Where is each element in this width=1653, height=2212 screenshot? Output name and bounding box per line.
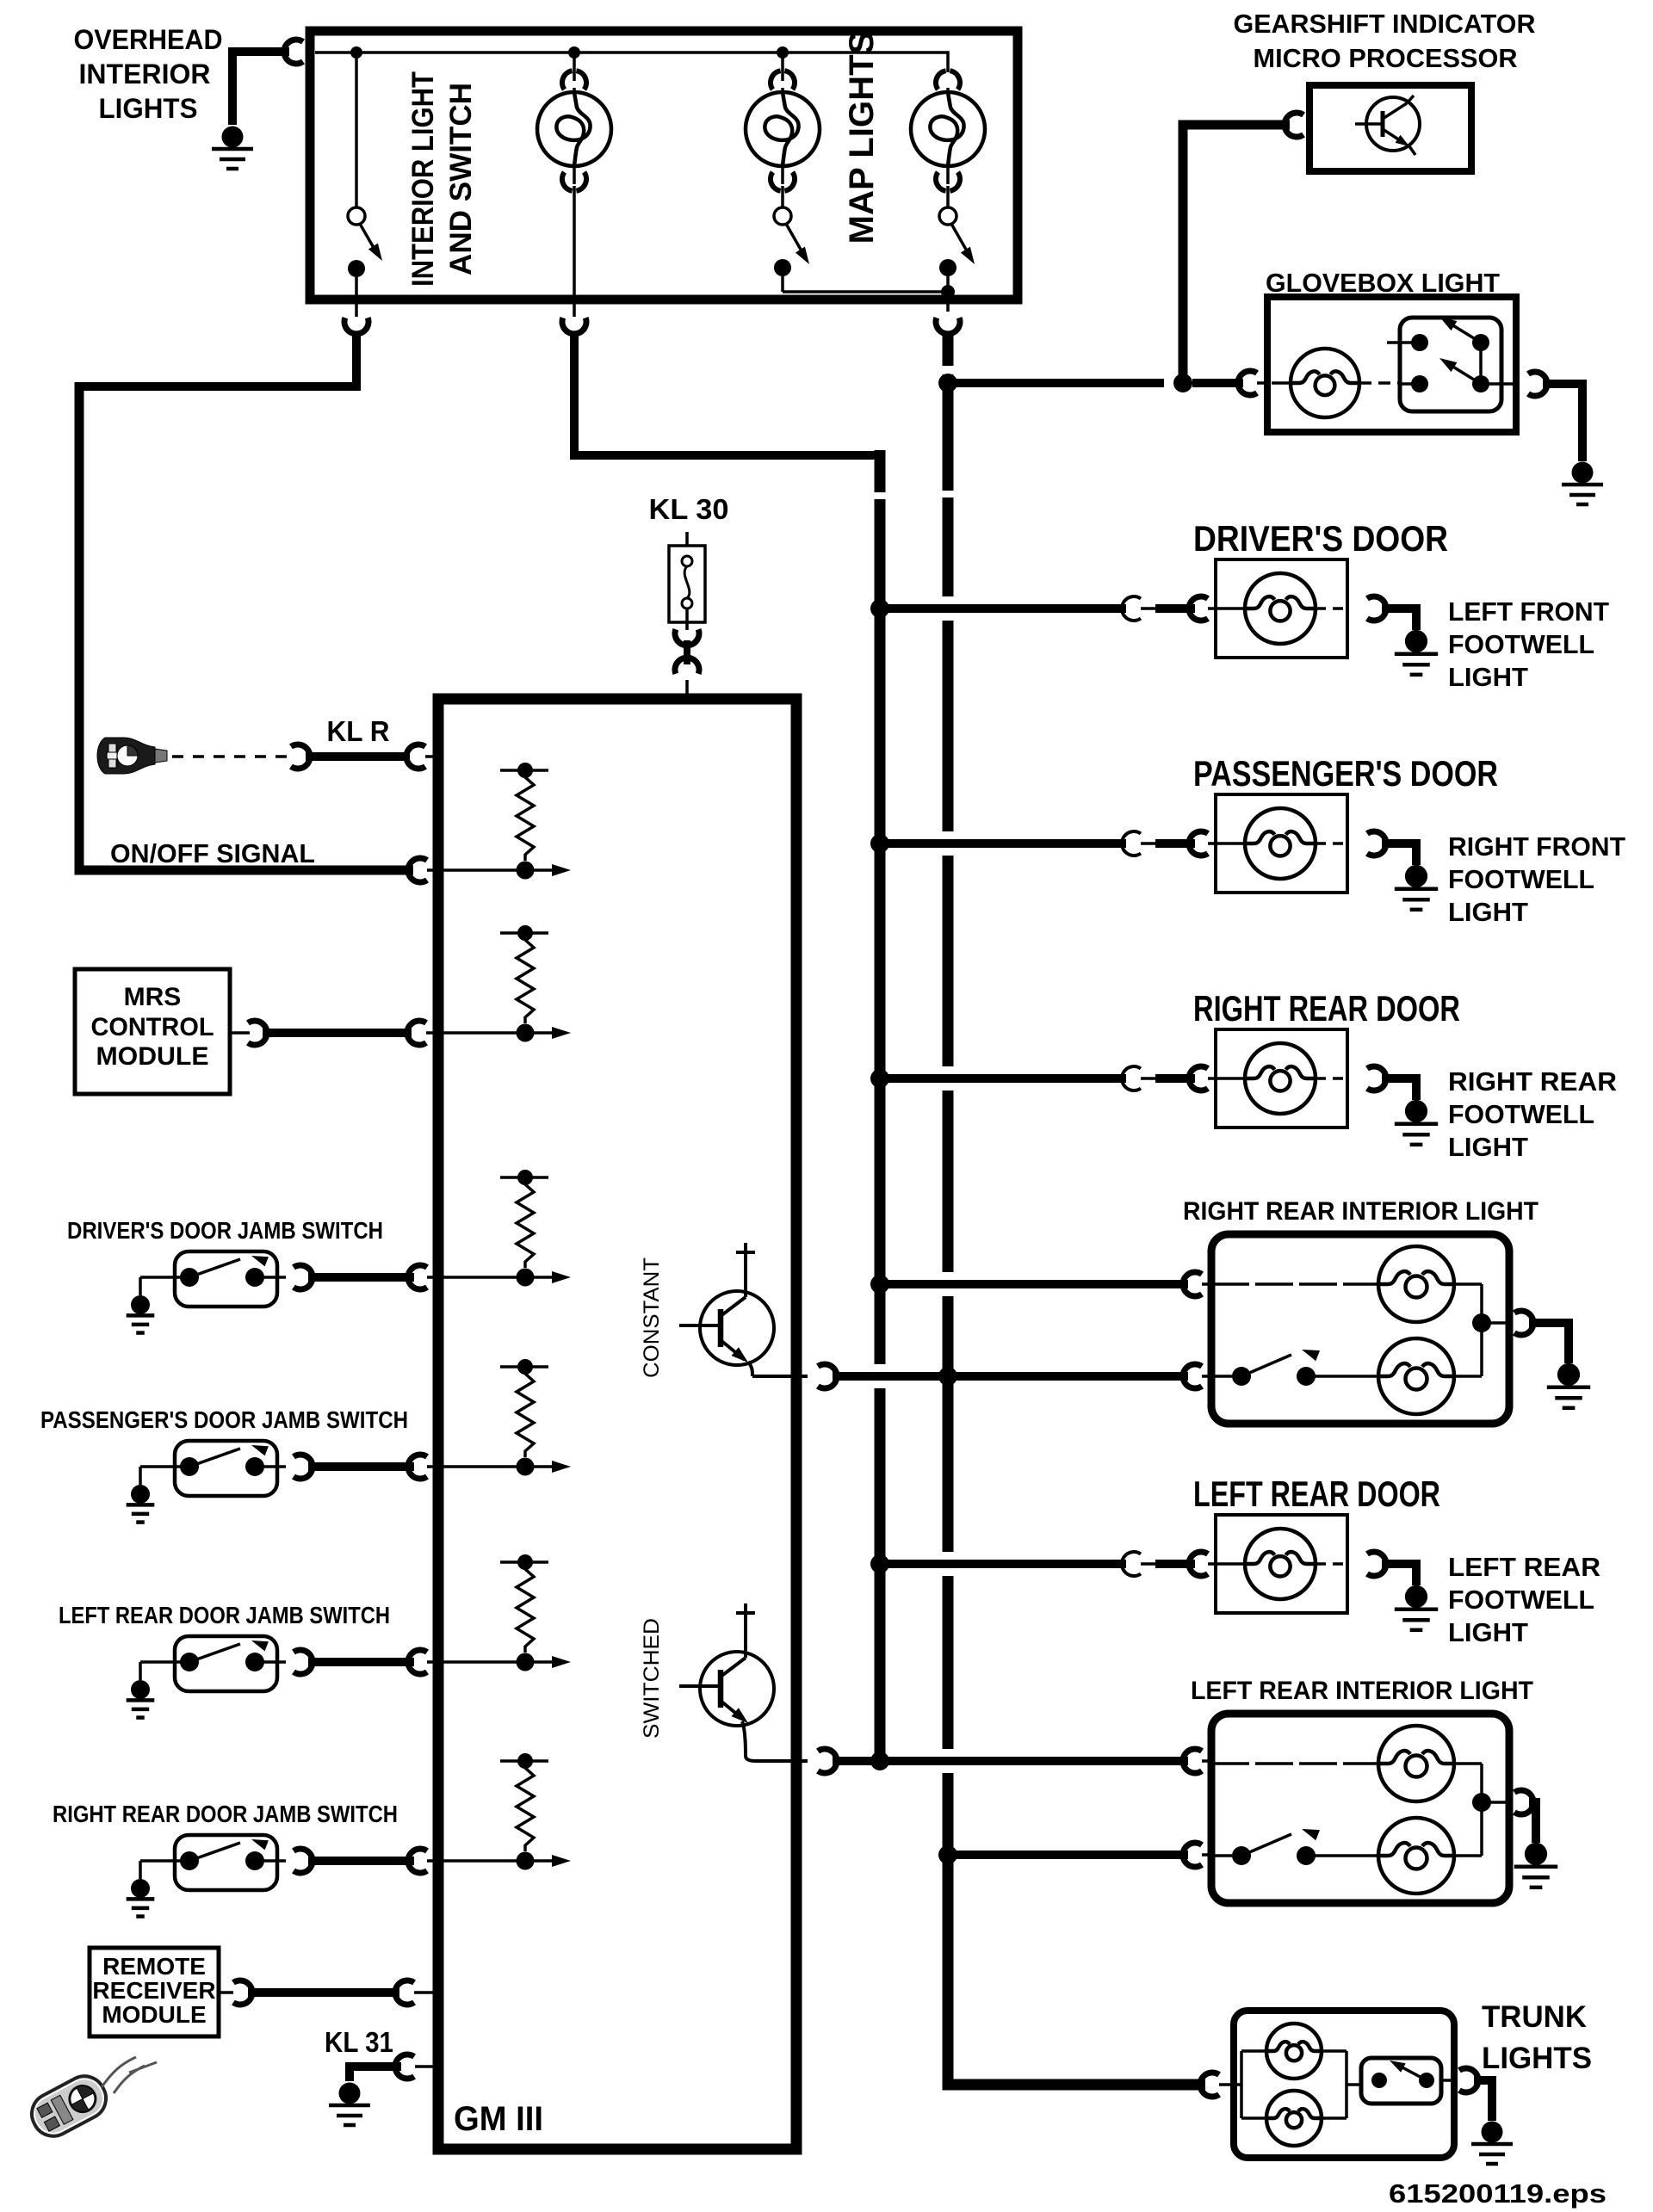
svg-text:GEARSHIFT INDICATOR: GEARSHIFT INDICATOR [1234,9,1536,39]
svg-text:LEFT REAR DOOR JAMB SWITCH: LEFT REAR DOOR JAMB SWITCH [59,1602,390,1628]
wire from left bus [870,599,889,618]
ground [1482,2122,1503,2143]
wire from left bus [870,834,889,853]
wire: remote receiver to GM III [219,1991,233,1994]
GM III input line y=1931 [443,1660,554,1664]
interior bulb output connector [562,318,586,334]
wire from left bus [870,1069,889,1088]
svg-text:MAP LIGHTS: MAP LIGHTS [843,32,881,244]
supply lead [744,1622,747,1658]
svg-text:LIGHTS: LIGHTS [1482,2042,1592,2075]
svg-text:KL R: KL R [327,715,390,747]
ignition key illustration [97,738,167,774]
wire: left bus to right rear interior light bulbs [870,1275,889,1294]
ground [1525,1843,1547,1865]
jamb switch contacts and blade [180,1457,199,1476]
fuse KL 30 [685,532,689,546]
bulb 2 [1378,1818,1454,1894]
interior light and switch box [310,31,1018,300]
right vertical bus [943,336,954,366]
svg-text:OVERHEAD: OVERHEAD [74,24,223,55]
bulb 1 [1211,1762,1378,1765]
svg-text:FOOTWELL: FOOTWELL [1448,1099,1594,1129]
svg-text:CONSTANT: CONSTANT [640,1257,664,1378]
svg-text:DRIVER'S DOOR: DRIVER'S DOOR [1193,518,1448,559]
svg-text:LEFT REAR DOOR: LEFT REAR DOOR [1193,1474,1440,1514]
resistor (input pull-up) [500,1560,548,1564]
connector at interior light box [284,40,303,64]
output to ground [1367,596,1386,621]
svg-text:INTERIOR: INTERIOR [79,59,211,90]
GM III input line y=2162 [443,1859,554,1863]
wire: right bus to left rear interior light switch row [938,1845,957,1864]
door lamp box [1216,559,1347,658]
svg-text:GLOVEBOX LIGHT: GLOVEBOX LIGHT [1266,268,1500,298]
transistor constant driver [700,1291,774,1365]
constant output connector [818,1364,837,1388]
trunk output to ground [1459,2068,1478,2092]
svg-text:LIGHT: LIGHT [1448,1132,1528,1162]
supply lead [744,1262,747,1297]
wire: switch output to GM III on/off input [79,331,356,386]
map light switch 2 [946,186,950,207]
svg-text:LEFT REAR INTERIOR LIGHT: LEFT REAR INTERIOR LIGHT [1191,1677,1533,1705]
svg-text:PASSENGER'S DOOR JAMB SWITCH: PASSENGER'S DOOR JAMB SWITCH [40,1406,408,1433]
svg-text:AND SWITCH: AND SWITCH [444,83,478,275]
wire to GM III [294,1849,313,1873]
svg-text:KL 31: KL 31 [325,2026,393,2058]
fuse to GM III connector pair [675,629,699,646]
svg-text:FOOTWELL: FOOTWELL [1448,1585,1594,1615]
output to ground [1367,1552,1386,1576]
svg-text:RIGHT REAR DOOR: RIGHT REAR DOOR [1193,988,1460,1029]
svg-text:FOOTWELL: FOOTWELL [1448,629,1594,659]
wire: switched output to left bus end and left rear interior light [833,1757,1188,1765]
wire: right bus down to trunk [948,2079,1205,2085]
left vertical bus [875,450,886,492]
svg-text:CONTROL: CONTROL [91,1013,214,1041]
svg-text:ON/OFF SIGNAL: ON/OFF SIGNAL [110,838,315,868]
wire: constant output to right bus and right rear interior light [833,1372,1188,1381]
svg-text:LEFT REAR: LEFT REAR [1448,1552,1600,1582]
svg-text:GM III: GM III [454,2100,543,2138]
svg-text:RIGHT FRONT: RIGHT FRONT [1448,831,1625,862]
remote receiver module [90,1948,219,2036]
svg-text:TRUNK: TRUNK [1482,2000,1587,2034]
svg-text:RIGHT REAR: RIGHT REAR [1448,1066,1617,1097]
svg-text:MRS: MRS [124,983,182,1011]
ground [1557,1363,1580,1386]
wire: bulb feed to left bus [574,331,875,455]
GM III input line y=1484 [443,1276,554,1279]
ground [1405,865,1427,887]
map light bulb 1 [781,53,784,81]
GM III input line y=1704 [443,1465,554,1468]
ground [1405,1585,1427,1608]
svg-text:PASSENGER'S DOOR: PASSENGER'S DOOR [1193,753,1498,794]
wire: right bus to glovebox [938,374,957,392]
bulb 2 [1378,1338,1454,1414]
wire to GM III [294,1265,313,1289]
switched output connector [818,1749,837,1773]
interior light switch [355,53,358,207]
svg-text:KL 30: KL 30 [649,493,729,525]
ground [131,1485,150,1504]
jamb switch contacts and blade [180,1851,199,1870]
svg-text:FOOTWELL: FOOTWELL [1448,864,1594,894]
wire: KL 31 ground input [395,2054,414,2079]
glovebox output to ground [1528,372,1547,396]
transistor symbol [1366,97,1420,151]
map light switch 1 [781,186,784,207]
output to ground [1367,831,1386,856]
ground [339,2083,361,2104]
jamb switch contacts and blade [180,1268,199,1287]
switch output connector below box [344,318,368,334]
transistor switched driver [700,1652,774,1726]
ground [131,1879,150,1898]
wire: KL R input [291,745,310,769]
output to ground [1367,1066,1386,1091]
map lights output connector [936,318,960,334]
internal supply bus [315,53,948,72]
gearshift indicator box [1309,85,1471,171]
svg-text:DRIVER'S DOOR JAMB SWITCH: DRIVER'S DOOR JAMB SWITCH [67,1217,383,1244]
ground [1572,462,1594,484]
wire: bus to gearshift indicator [1285,113,1303,137]
GM III input line y=1011 [443,868,554,872]
svg-text:RIGHT REAR DOOR JAMB SWITCH: RIGHT REAR DOOR JAMB SWITCH [53,1801,398,1827]
svg-text:LIGHTS: LIGHTS [99,93,198,124]
switch [1211,1854,1232,1857]
svg-text:MODULE: MODULE [102,2001,206,2028]
svg-text:INTERIOR LIGHT: INTERIOR LIGHT [406,71,440,287]
wire: MRS to GM III [230,1031,250,1035]
door lamp box [1216,1029,1347,1128]
svg-text:RECEIVER: RECEIVER [92,1977,215,2004]
bulb 1 [1211,1282,1378,1286]
ground [1405,630,1427,652]
glovebox light box [1267,297,1516,432]
connector: on/off input [408,858,427,882]
svg-text:LEFT FRONT: LEFT FRONT [1448,596,1609,627]
glovebox bulb [1272,381,1291,385]
svg-text:SWITCHED: SWITCHED [640,1618,664,1739]
resistor (input pull-up) [500,1759,548,1763]
resistor (input pull-up) [500,1176,548,1179]
switch [1211,1375,1232,1378]
interior light bulb [573,53,576,81]
ground [131,1295,150,1314]
remote key fob illustration [25,2069,114,2143]
jamb switch contacts and blade [180,1653,199,1671]
door lamp box [1216,1515,1347,1613]
wire: overhead lights feed [232,52,289,125]
resistor (input pull-up) [500,1365,548,1369]
GM III input line y=1200 [443,1031,554,1035]
GM III control module box [438,699,796,2149]
svg-text:615200119.eps: 615200119.eps [1389,2178,1607,2209]
svg-text:LIGHT: LIGHT [1448,1617,1528,1647]
wire from left bus [870,1554,889,1573]
svg-text:LIGHT: LIGHT [1448,662,1528,692]
map light bulb 2 [936,71,946,90]
trunk switch [1361,2058,1441,2104]
ground [131,1680,150,1699]
resistor (input pull-up) [500,931,548,935]
svg-text:RIGHT REAR INTERIOR LIGHT: RIGHT REAR INTERIOR LIGHT [1183,1197,1538,1226]
MRS control module [75,969,230,1094]
glovebox switch [1400,318,1501,411]
svg-text:REMOTE: REMOTE [102,1953,206,1980]
door lamp box [1216,794,1347,893]
wire to GM III [294,1650,313,1674]
trunk lights box [1234,2011,1454,2158]
resistor (input pull-up) [500,769,548,772]
output node [1480,1764,1483,1856]
svg-text:MICRO PROCESSOR: MICRO PROCESSOR [1254,43,1518,73]
wire to GM III [294,1455,313,1479]
ground [1405,1100,1427,1122]
trunk bulbs in parallel [1234,2083,1241,2086]
svg-text:MODULE: MODULE [96,1042,209,1071]
svg-text:LIGHT: LIGHT [1448,897,1528,927]
ground [222,127,244,148]
output node [1480,1284,1483,1376]
